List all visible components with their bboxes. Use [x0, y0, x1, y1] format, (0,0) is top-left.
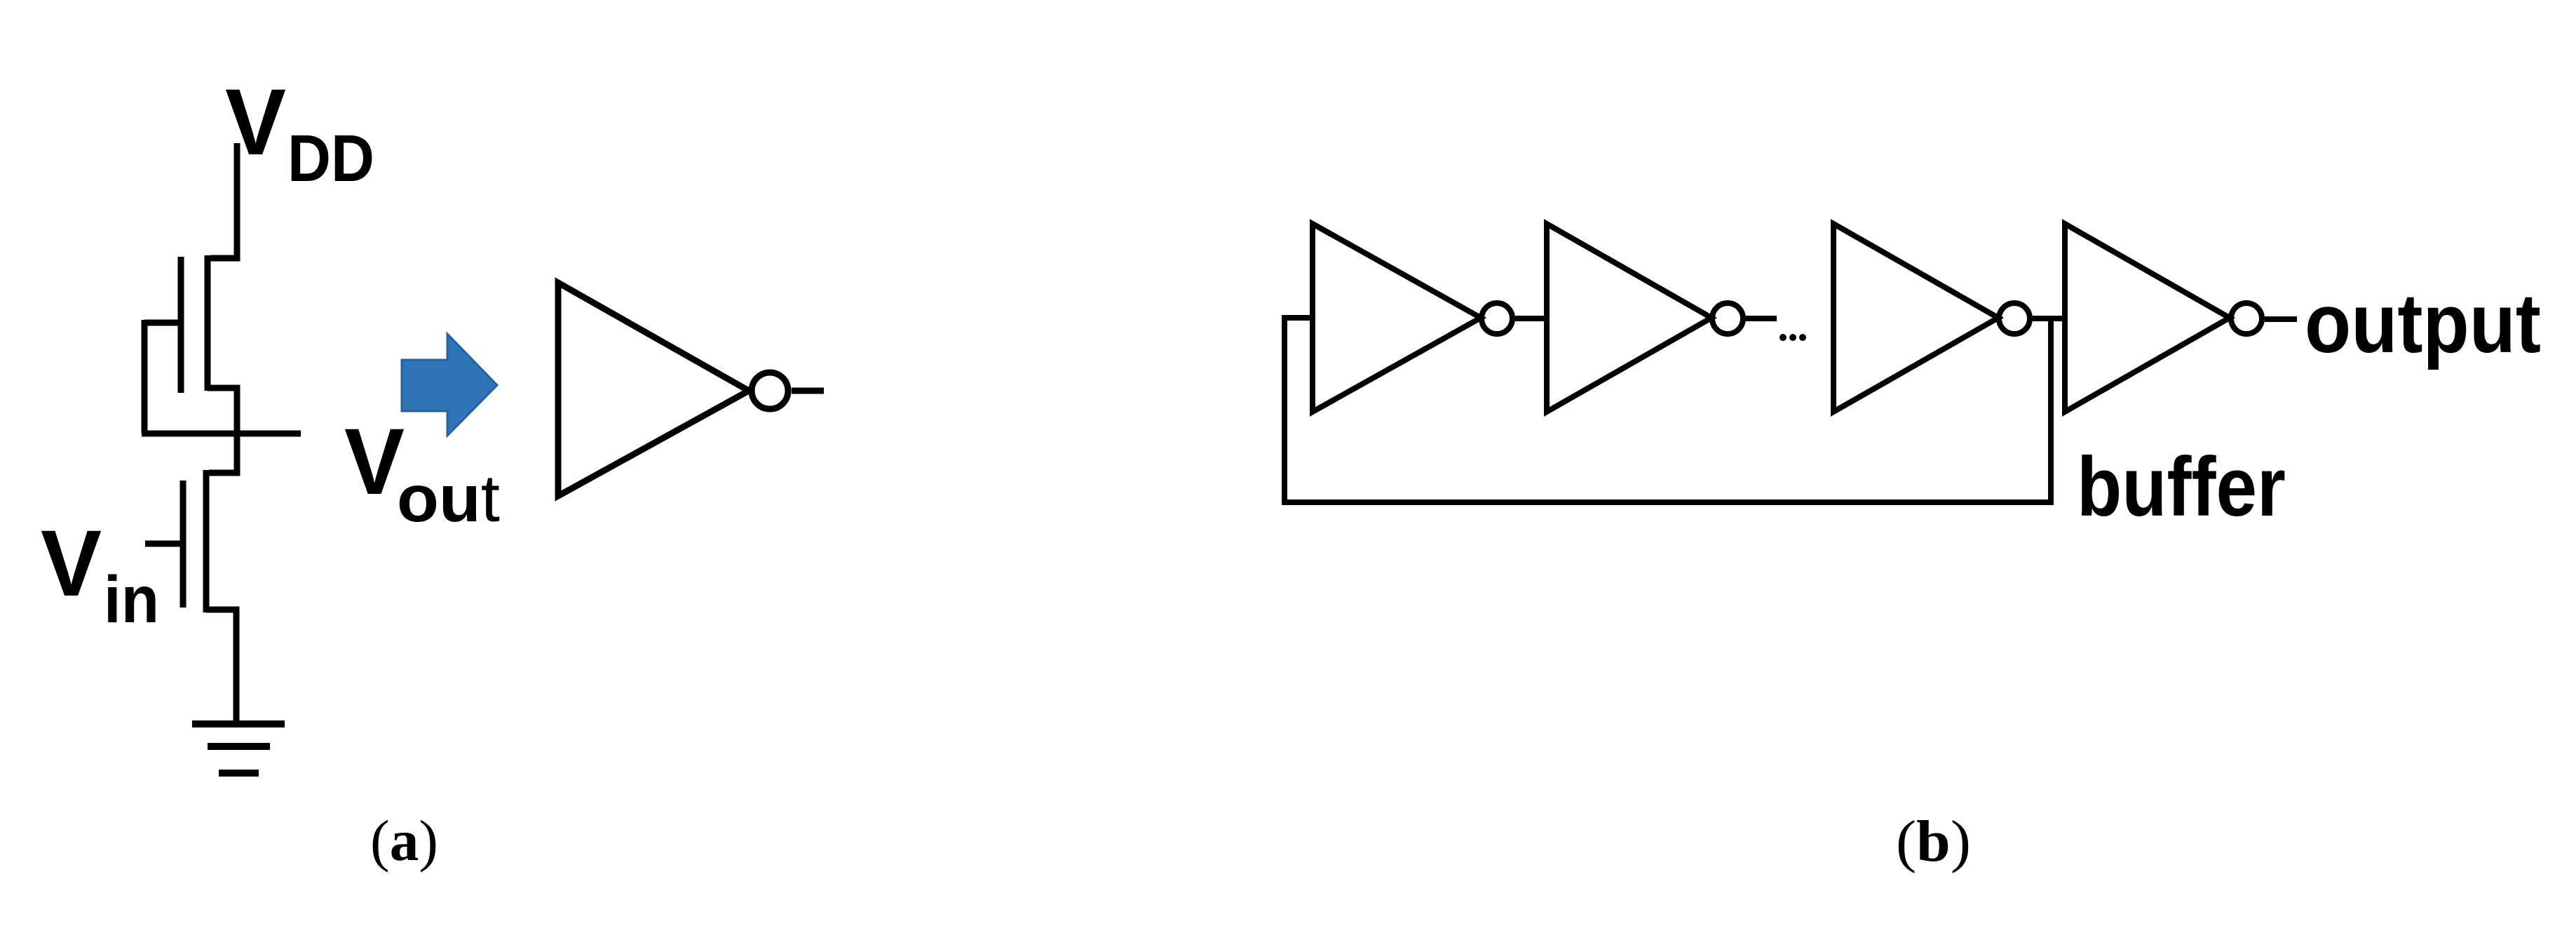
wire U1 output stub [792, 388, 824, 394]
inverter A2 triangle [1547, 224, 1711, 412]
node Vout label [344, 410, 500, 536]
wire A2 output stub [1746, 316, 1777, 321]
inverter A4 buffer triangle [2065, 224, 2230, 412]
svg-text:in: in [104, 563, 159, 637]
node VDD label [225, 70, 374, 196]
svg-text:(a): (a) [370, 808, 438, 873]
wire M1 gate lead [144, 320, 184, 326]
inverter A4 bubble [2231, 303, 2262, 334]
wire A1 to A2 [1515, 316, 1547, 321]
ellipsis dots [1780, 334, 1806, 341]
svg-text:V: V [41, 511, 102, 616]
wire M1 gate feedback to output node [142, 320, 148, 434]
wire M2 gate lead [145, 541, 183, 547]
wire M1 drain lead down to M2 [208, 388, 237, 473]
transistor M2 gate line [180, 481, 187, 608]
wire M2 source lead to ground [206, 610, 236, 723]
svg-text:output: output [2305, 276, 2541, 370]
svg-text:DD: DD [287, 121, 374, 196]
wire feedback loop [1284, 318, 2051, 502]
inverter A3 bubble [1999, 303, 2030, 334]
svg-text:buffer: buffer [2077, 440, 2286, 534]
node Vout wire [142, 431, 301, 437]
svg-text:V: V [344, 410, 405, 514]
transistor M2 (NMOS driver) channel line [203, 470, 210, 612]
inverter A1 bubble [1482, 303, 1512, 334]
transistor M1 (PMOS load, diode-connected) channel line [205, 255, 211, 391]
inverter U1 bubble [752, 373, 788, 409]
svg-text:(b): (b) [1896, 809, 1971, 874]
wire VDD lead [210, 143, 237, 258]
inverter A3 triangle [1833, 224, 1998, 412]
transistor M1 gate line [178, 257, 184, 393]
node Vin label [41, 511, 159, 637]
arrow (blue, equivalence) [402, 334, 497, 436]
svg-text:out: out [397, 462, 500, 536]
inverter U1 triangle [558, 283, 749, 496]
wire A3 to A4 [2033, 316, 2065, 321]
wire output stub [2265, 316, 2297, 322]
ground symbol [192, 724, 285, 773]
inverter A2 bubble [1712, 303, 1743, 334]
inverter A1 triangle [1313, 224, 1481, 412]
